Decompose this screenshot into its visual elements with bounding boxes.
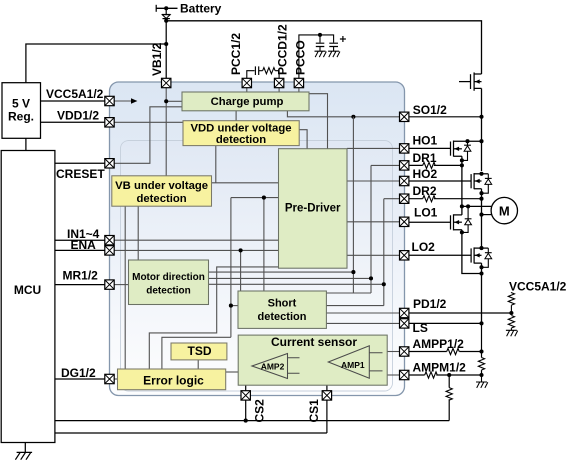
op-amp AMP1 <box>328 346 369 378</box>
node AMPM sense <box>447 373 451 377</box>
pin DR1 <box>400 161 409 170</box>
wire SO1/2 external <box>409 116 482 118</box>
svg-text:AMP2: AMP2 <box>261 361 285 371</box>
svg-text:HO1: HO1 <box>413 134 438 148</box>
wire PCC1/2 up <box>247 71 255 79</box>
capacitor C1 pump <box>255 66 258 75</box>
wire MCU DG1/2 <box>55 378 105 380</box>
wire VDD1/2 to VDD UVD <box>114 121 183 123</box>
svg-text:CRESET: CRESET <box>56 167 105 181</box>
wire AMPM internal <box>387 374 399 376</box>
capacitor C3 electrolytic <box>329 43 338 46</box>
svg-text:ENA: ENA <box>71 238 97 252</box>
wire CS1 sense bus <box>55 432 327 434</box>
wire MCU IN1-4 <box>55 239 105 241</box>
svg-text:VB1/2: VB1/2 <box>150 42 164 76</box>
svg-text:CS1: CS1 <box>307 399 321 423</box>
pin VCC5A1/2 <box>105 96 114 105</box>
node DR1 tap <box>369 276 373 280</box>
pin PD1/2 <box>400 308 409 317</box>
wire R5 to ground <box>510 328 512 330</box>
svg-text:Motor direction: Motor direction <box>132 272 205 283</box>
svg-text:LS: LS <box>413 321 428 335</box>
wire SO net from charge pump <box>287 111 399 117</box>
node Q3 source <box>460 230 464 234</box>
block TSD <box>171 343 227 360</box>
svg-text:HO2: HO2 <box>413 167 438 181</box>
wire HO1 internal <box>347 147 400 149</box>
svg-text:detection: detection <box>136 193 186 205</box>
wire battery stub <box>156 7 177 9</box>
wire AMPM to ground <box>481 375 483 382</box>
resistor R5 PD pull-down <box>508 316 514 329</box>
wire LS external <box>409 322 482 324</box>
node SW1 DR1 <box>460 163 464 167</box>
wire DR2 internal <box>384 198 400 200</box>
wire regulator to MCU <box>25 138 27 150</box>
wire VCC5A to resistor <box>510 291 512 294</box>
resistor R8 AMPM <box>425 372 438 378</box>
svg-text:CS2: CS2 <box>253 399 267 423</box>
svg-text:VDD1/2: VDD1/2 <box>57 109 99 123</box>
transistor Q1 high side 1 <box>409 141 482 166</box>
node VB <box>164 99 168 103</box>
wire regulator VCC5A out <box>41 100 106 102</box>
wire LO1 internal <box>347 221 400 223</box>
wire node chain to Pre-Driver and Short detection <box>231 198 279 291</box>
wire charge pump right to Pre-Driver <box>309 94 328 149</box>
body diode Q3 <box>467 206 469 218</box>
transistor Q2 high side 2 <box>409 173 488 193</box>
ground C2 <box>315 51 327 57</box>
svg-text:Reg.: Reg. <box>8 110 34 124</box>
node PCCO branch <box>318 33 322 37</box>
pin ENA <box>105 246 114 255</box>
arrow Q1 <box>454 147 459 151</box>
pin CS1 <box>322 391 331 400</box>
block Pre-Driver <box>279 149 348 269</box>
pin SO1/2 <box>400 112 409 121</box>
svg-text:VDD under voltage: VDD under voltage <box>190 123 291 135</box>
svg-text:Error logic: Error logic <box>143 373 204 387</box>
node Q4 drain <box>479 246 483 250</box>
block motor direction detection <box>129 260 209 305</box>
pin IN1-4 <box>105 236 114 245</box>
pin HO1 <box>400 144 409 153</box>
body diode Q1 <box>467 141 469 145</box>
svg-text:LO1: LO1 <box>414 206 438 220</box>
block error logic <box>118 369 226 390</box>
node Q2 diode bottom <box>479 191 483 195</box>
block charge pump <box>182 92 309 111</box>
block VB under voltage detection <box>112 176 212 206</box>
svg-text:VB under voltage: VB under voltage <box>115 180 208 192</box>
pin DG1/2 <box>105 374 114 383</box>
node CS2 bus <box>244 419 248 423</box>
wire LS rail down <box>481 267 483 323</box>
node SW1 motor tap <box>460 204 464 208</box>
node ENA branch <box>239 248 243 252</box>
wire ENA to Pre-Driver <box>114 249 278 251</box>
arrow Q3 <box>454 220 459 224</box>
ground PD divider <box>506 330 518 336</box>
wire AMPM external <box>409 374 482 376</box>
wire DR2 external <box>409 198 482 200</box>
wire VB node to charge pump <box>166 100 182 102</box>
battery terminal tick <box>155 5 157 12</box>
wire MCU MR1/2 <box>55 284 105 286</box>
wire VDD UVD to Pre-Driver <box>299 130 307 149</box>
svg-text:MCU: MCU <box>14 283 41 297</box>
pin HO2 <box>400 176 409 185</box>
svg-text:PCCO: PCCO <box>294 40 308 75</box>
wire motor dir out 3 <box>209 283 384 285</box>
wire PCC pins into charge pump <box>247 88 299 92</box>
node SO rail top <box>479 115 483 119</box>
wire PCCO branch down <box>319 35 321 43</box>
wire C2 to ground <box>319 47 321 52</box>
pin LO2 <box>400 251 409 260</box>
arrow Q2 <box>475 179 480 183</box>
svg-text:VCC5A1/2: VCC5A1/2 <box>46 87 104 101</box>
arrow Q0 <box>475 79 480 83</box>
resistor R2 DR1 <box>423 162 436 168</box>
motor M <box>491 197 517 223</box>
diode D1 reverse protection <box>162 14 171 16</box>
svg-text:LO2: LO2 <box>412 240 436 254</box>
node SW2 DR2 <box>479 197 483 201</box>
ground AMPM <box>476 382 488 388</box>
pin VDD1/2 <box>105 118 114 127</box>
wire sense resistor to bus <box>448 375 450 421</box>
pin MR1/2 <box>105 280 114 289</box>
resistor R9 sense <box>446 388 452 401</box>
wire R4 to PD node <box>510 305 512 313</box>
wire resistor to PCCD1/2 <box>275 71 279 79</box>
wire motor dir out 2 <box>209 277 372 279</box>
svg-text:Current sensor: Current sensor <box>271 335 357 349</box>
wire DR1 branch down <box>370 165 372 293</box>
resistor R4 PD pull-up <box>508 293 514 306</box>
pin PCCD1/2 <box>274 78 283 87</box>
wire AMPP internal <box>387 351 399 353</box>
pin VB1/2 <box>162 78 171 87</box>
node pre-driver input <box>262 196 266 200</box>
svg-text:TSD: TSD <box>188 344 212 358</box>
wire battery rail <box>166 21 481 74</box>
wire shunt to AMPM node <box>481 370 483 375</box>
svg-text:DR2: DR2 <box>413 184 437 198</box>
capacitor C2 PCCO <box>316 43 325 46</box>
body diode Q2 <box>487 174 489 179</box>
wire DR1 internal <box>371 164 400 166</box>
wire SW1 down <box>461 165 463 215</box>
block current sensor <box>238 335 387 385</box>
svg-text:M: M <box>499 203 510 218</box>
node battery <box>164 6 168 10</box>
pin AMPP1/2 <box>400 347 409 356</box>
node Q2 drain <box>479 172 483 176</box>
svg-text:AMP1: AMP1 <box>341 360 365 370</box>
svg-text:PCCD1/2: PCCD1/2 <box>276 24 290 75</box>
wire SO rail to Q2 drain <box>481 141 483 171</box>
wire VB UVD to Motor direction detection <box>137 206 139 260</box>
node short det stub <box>229 304 233 308</box>
node Q1 diode bottom <box>460 158 464 162</box>
wire battery to diode <box>165 8 167 14</box>
pin PCC1/2 <box>242 78 251 87</box>
node AMPM shunt <box>479 373 483 377</box>
node diode cathode <box>164 19 168 23</box>
wire DG1/2 to Error logic <box>114 378 117 380</box>
wire DR2 branch down <box>326 199 383 306</box>
svg-text:Pre-Driver: Pre-Driver <box>285 203 341 215</box>
wire chain stub to Short detection <box>231 305 238 307</box>
wire motor dir out 1 <box>209 271 354 273</box>
svg-text:DG1/2: DG1/2 <box>61 366 96 380</box>
node SO branch <box>351 115 355 119</box>
body diode Q4 <box>487 248 489 253</box>
svg-text:PD1/2: PD1/2 <box>413 297 447 311</box>
wire MCU ENA <box>55 249 105 251</box>
svg-text:AMPM1/2: AMPM1/2 <box>413 361 467 375</box>
wire TSD to Error logic <box>197 360 199 369</box>
wire IN1-4 to Pre-Driver <box>114 239 278 241</box>
node SO tap <box>351 270 355 274</box>
svg-text:5 V: 5 V <box>12 96 30 110</box>
pin PCCO <box>294 78 303 87</box>
pin CS2 <box>241 391 250 400</box>
plus sign C3 <box>340 36 346 42</box>
wire MR1/2 to Motor direction detection <box>114 284 128 286</box>
arrowhead VCC5A <box>131 98 137 104</box>
op-amp AMP2 input stubs <box>288 358 300 374</box>
wire regulator VDD out <box>41 121 106 123</box>
arrow Q4 <box>475 253 480 257</box>
wire charge pump to VDD UVD <box>235 111 237 121</box>
wire battery feed to regulator <box>26 44 166 83</box>
op-amp AMP2 <box>252 354 288 379</box>
node SW2 motor tap <box>479 213 483 217</box>
resistor R3 DR2 <box>423 196 436 202</box>
IC inner panel <box>121 141 393 392</box>
block short detection <box>238 291 326 328</box>
IC body U1 (driver IC outline) <box>110 82 405 396</box>
wire MCU CRESET <box>55 162 105 164</box>
pin LS <box>400 319 409 328</box>
wire AMP2 output to CS2 <box>246 366 252 421</box>
pin DR2 <box>400 194 409 203</box>
svg-text:AMPP1/2: AMPP1/2 <box>413 337 465 351</box>
wire LO2 internal <box>347 254 400 256</box>
wire ENA branch to Short detection <box>240 250 242 291</box>
wire SO rail to Q1 drain <box>481 117 483 141</box>
svg-text:Battery: Battery <box>180 2 222 16</box>
block VDD under voltage detection <box>183 121 299 146</box>
wire C3 to ground <box>333 47 335 52</box>
node PD divider <box>509 311 513 315</box>
pin CRESET <box>105 159 114 168</box>
svg-text:PCC1/2: PCC1/2 <box>229 33 243 75</box>
wire HO2 internal <box>347 180 400 182</box>
svg-text:Charge pump: Charge pump <box>211 96 284 108</box>
svg-text:DR1: DR1 <box>413 151 437 165</box>
ground C3 <box>328 51 340 57</box>
wire PD1/2 external <box>409 312 512 314</box>
resistor R7 shunt <box>478 358 484 371</box>
svg-text:MR1/2: MR1/2 <box>63 269 99 283</box>
transistor Q3 low side 1 <box>409 214 462 232</box>
wire DR1 external <box>409 164 462 166</box>
wire PD internal <box>326 312 399 314</box>
wire Pre-Driver to Error logic <box>149 267 278 369</box>
wire diode to VB pin <box>165 21 167 79</box>
wire CRESET to charge pump <box>114 107 182 164</box>
wire VCC5A into chip with arrow <box>114 100 131 102</box>
wire SO branch down to Short detection <box>326 117 371 293</box>
wire cap to resistor <box>259 70 263 72</box>
wire PCCO up and over <box>299 35 334 79</box>
resistor R6 AMPP <box>447 348 460 354</box>
wire SW2 down <box>481 193 483 248</box>
wire VB1/2 down to VB UVD <box>165 87 167 176</box>
block MCU <box>1 151 55 443</box>
wire AMP1 output to CS1 <box>327 362 328 433</box>
node DR2 tap <box>382 282 386 286</box>
wire VDD UVD down to Pre-Driver <box>212 146 279 183</box>
wire chain down to Error logic <box>162 198 231 369</box>
svg-text:SO1/2: SO1/2 <box>413 103 447 117</box>
pin LO1 <box>400 217 409 226</box>
transistor Q4 low side 2 <box>409 247 488 267</box>
wire LS internal <box>326 322 399 324</box>
svg-text:Short: Short <box>268 298 297 310</box>
wire Error logic to Current sensor <box>226 371 239 373</box>
node LS shunt top <box>479 321 483 325</box>
svg-text:detection: detection <box>258 311 307 323</box>
ground MCU <box>15 443 32 460</box>
svg-text:detection: detection <box>146 286 190 297</box>
wire AMPP external <box>409 351 482 353</box>
node LS rail join <box>479 271 483 275</box>
wire CS2 sense bus <box>55 420 449 422</box>
wire Q3 source to LS rail <box>462 232 482 273</box>
node Q4 diode bottom <box>479 265 483 269</box>
block 5V regulator <box>2 83 41 139</box>
wire Q0 source to SO rail <box>481 88 483 116</box>
wire motor lower lead <box>482 214 492 216</box>
svg-text:detection: detection <box>216 134 266 146</box>
node battery feed <box>164 42 168 46</box>
wire motor upper lead <box>462 205 492 207</box>
node Q1 diode top <box>465 139 469 143</box>
node AMPP shunt <box>479 349 483 353</box>
pin AMPM1/2 <box>400 370 409 379</box>
wire LS node down <box>481 323 483 357</box>
svg-text:VCC5A1/2: VCC5A1/2 <box>509 280 567 294</box>
node Q3 diode top <box>466 204 470 208</box>
node Q1 drain rail <box>479 139 483 143</box>
op-amp AMP1 input stubs <box>369 353 382 371</box>
resistor R1 pump <box>263 68 276 74</box>
transistor Q0 reverse battery FET <box>459 72 482 90</box>
wire VB UVD to Error logic <box>124 206 126 369</box>
